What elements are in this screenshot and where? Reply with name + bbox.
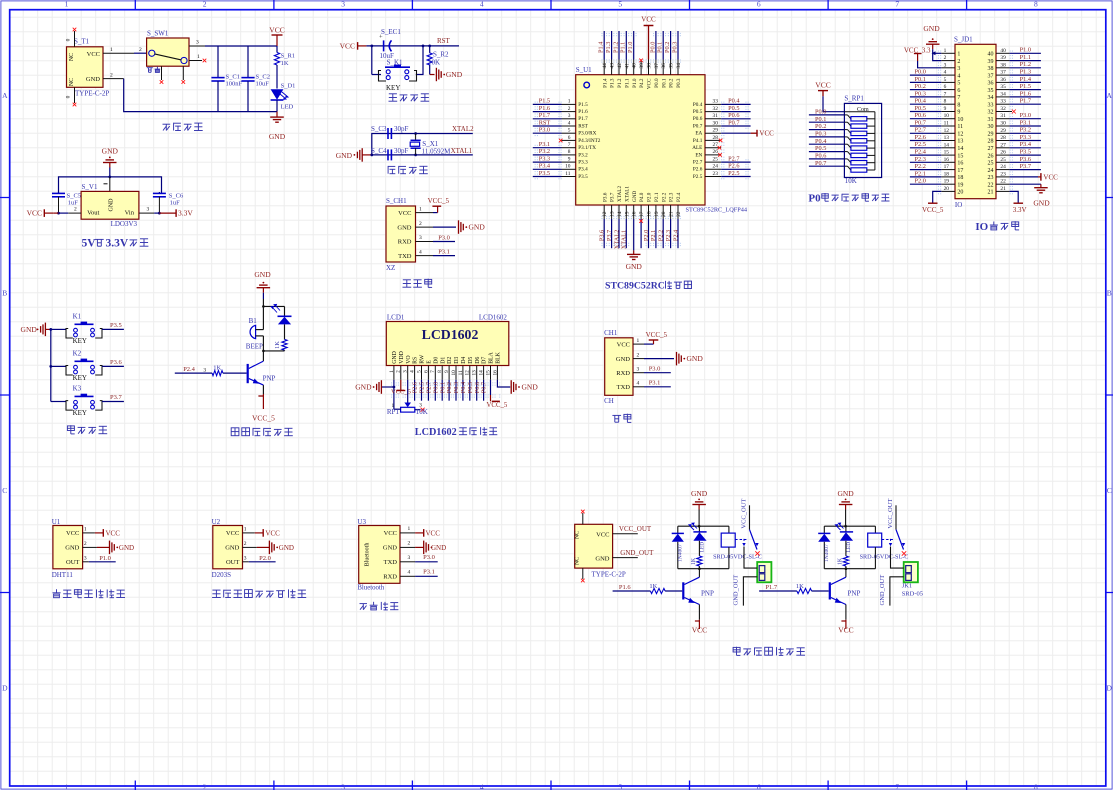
svg-text:D6: D6: [475, 357, 481, 364]
svg-text:GND: GND: [431, 544, 446, 552]
svg-text:B: B: [1107, 289, 1112, 298]
svg-text:11: 11: [565, 171, 570, 177]
wire GND down to node: [262, 293, 264, 299]
wire VCC to Com pin: [823, 96, 844, 111]
svg-text:22: 22: [676, 211, 682, 217]
svg-text:P3.7: P3.7: [610, 192, 616, 202]
CH1 pin 4 net P3.1: [416, 255, 434, 257]
svg-text:39: 39: [988, 59, 994, 65]
svg-text:P3.6: P3.6: [602, 192, 608, 202]
svg-text:27: 27: [1000, 142, 1006, 148]
svg-text:GND: GND: [336, 151, 353, 160]
svg-text:1: 1: [408, 526, 411, 532]
svg-text:1K: 1K: [649, 583, 657, 590]
relay coil SRD-05VDC-SL-C: [728, 526, 730, 533]
svg-text:35: 35: [988, 88, 994, 94]
svg-text:13: 13: [610, 211, 616, 217]
svg-text:P0.6: P0.6: [693, 116, 703, 122]
svg-text:17: 17: [944, 164, 950, 170]
svg-text:37: 37: [654, 63, 660, 69]
svg-text:25: 25: [713, 156, 719, 162]
svg-text:2: 2: [637, 352, 640, 358]
connector CH1: [605, 338, 633, 396]
svg-text:VCC: VCC: [692, 626, 707, 635]
svg-text:4: 4: [944, 70, 947, 76]
CH1 pin 1 VCC_5: [416, 212, 434, 214]
svg-text:12: 12: [957, 132, 963, 138]
svg-text:14: 14: [479, 370, 485, 376]
svg-text:VCC_5: VCC_5: [252, 414, 275, 423]
svg-text:XTAL1: XTAL1: [621, 230, 628, 249]
title 声光报警电路: [231, 428, 239, 436]
svg-text:LCD1: LCD1: [387, 313, 405, 321]
svg-text:XTAL2: XTAL2: [617, 186, 623, 202]
svg-text:P2.3: P2.3: [669, 192, 675, 202]
svg-text:3: 3: [196, 39, 199, 45]
U1 pin3 net P1.0: [83, 561, 89, 563]
CH1 pin3 net P3.0: [633, 372, 644, 374]
svg-text:P0.6: P0.6: [728, 112, 739, 119]
wire GND to top rail: [845, 510, 847, 527]
svg-text:GND: GND: [595, 556, 609, 563]
svg-text:4: 4: [408, 569, 411, 575]
svg-text:GND: GND: [254, 270, 271, 279]
svg-text:RS: RS: [413, 357, 419, 364]
svg-text:37: 37: [988, 73, 994, 79]
svg-text:GND: GND: [446, 70, 463, 79]
U3 pin1 VCC: [400, 532, 415, 534]
svg-text:22: 22: [988, 182, 994, 188]
svg-text:1: 1: [244, 527, 247, 533]
svg-text:1: 1: [419, 206, 422, 212]
svg-text:20: 20: [957, 190, 963, 196]
svg-text:1uF: 1uF: [68, 200, 79, 207]
svg-text:P0.1: P0.1: [657, 42, 664, 53]
svg-text:P3.0: P3.0: [423, 554, 435, 561]
svg-text:28: 28: [713, 135, 719, 141]
U1 left no-connect mark pin 6: [559, 139, 563, 143]
U3 pin3 net P3.0: [400, 561, 415, 563]
svg-text:1: 1: [637, 338, 640, 344]
svg-text:S_C4: S_C4: [371, 147, 387, 155]
svg-text:1K: 1K: [796, 583, 804, 590]
svg-text:P3.3: P3.3: [539, 155, 550, 162]
title 按键电路: [67, 426, 74, 431]
svg-text:P3.0: P3.0: [438, 234, 450, 241]
LDO pin 2 Vout wire: [68, 212, 81, 214]
svg-text:GND_OUT: GND_OUT: [879, 575, 886, 606]
svg-text:S_D1: S_D1: [281, 83, 296, 90]
svg-text:XTAL1: XTAL1: [451, 147, 473, 155]
svg-text:P0.3: P0.3: [676, 78, 682, 88]
svg-text:D: D: [2, 684, 8, 693]
U1 right no-connect marks pins 28 27 26: [719, 139, 723, 143]
svg-text:P0.4: P0.4: [815, 138, 827, 145]
svg-text:23: 23: [713, 171, 719, 177]
svg-text:P1.5: P1.5: [1020, 83, 1031, 90]
crystal S_X1 11.0592M: [415, 134, 417, 141]
svg-text:P0.3: P0.3: [815, 131, 826, 138]
upper wire XTAL2: [372, 134, 473, 155]
U1 right pins: [705, 103, 721, 105]
svg-text:PNP: PNP: [263, 375, 276, 383]
svg-text:P0.2: P0.2: [815, 123, 826, 130]
capacitor S_C6 1uF: [158, 192, 160, 194]
RP1 resistor element 8: [844, 165, 847, 167]
svg-text:RST: RST: [539, 119, 551, 126]
svg-text:17: 17: [639, 211, 645, 217]
U1 left pins: [562, 103, 576, 105]
svg-text:P2.1: P2.1: [650, 230, 657, 241]
svg-text:28: 28: [1000, 135, 1006, 141]
svg-text:D5: D5: [468, 357, 474, 364]
svg-text:37: 37: [1000, 70, 1006, 76]
svg-text:GND: GND: [21, 325, 38, 334]
svg-text:40: 40: [988, 52, 994, 58]
svg-text:IO: IO: [955, 201, 962, 209]
svg-text:30: 30: [1000, 121, 1006, 127]
svg-text:VCC: VCC: [340, 41, 355, 50]
svg-text:P3.7: P3.7: [110, 394, 122, 401]
svg-text:1K: 1K: [213, 364, 221, 371]
svg-text:20: 20: [944, 186, 950, 192]
svg-text:P3.2: P3.2: [1020, 127, 1031, 134]
MCU S_U1 STC89C52RC_LQFP44: [576, 75, 705, 205]
wire switch to terminal top pin: [891, 547, 904, 569]
svg-text:S_JD1: S_JD1: [954, 36, 973, 44]
diode 1N4007: [677, 526, 679, 533]
svg-text:27: 27: [988, 146, 994, 152]
svg-text:18: 18: [646, 211, 652, 217]
svg-text:1K: 1K: [691, 557, 697, 565]
svg-text:3: 3: [568, 113, 571, 119]
svg-text:24: 24: [713, 164, 719, 170]
svg-text:0: 0: [66, 95, 72, 98]
U1 bottom GND power symbol: [633, 219, 635, 250]
svg-text:1N4007: 1N4007: [824, 544, 830, 562]
svg-text:P1.3: P1.3: [605, 42, 612, 53]
CH1 pin4 net P3.1: [633, 386, 644, 388]
svg-text:27: 27: [713, 142, 719, 148]
svg-text:GND: GND: [355, 383, 372, 392]
svg-text:P3.5: P3.5: [1020, 149, 1031, 156]
svg-text:VCC: VCC: [815, 81, 830, 90]
svg-text:KEY: KEY: [73, 374, 87, 382]
wire bus to K2: [51, 365, 66, 367]
U3 pin4 net P3.1: [400, 575, 415, 577]
svg-text:4: 4: [410, 370, 416, 373]
svg-text:D2: D2: [447, 357, 453, 364]
JD1 pins: [941, 52, 955, 54]
svg-text:D203S: D203S: [212, 571, 232, 579]
LCD pin1 to GND and RP1: [393, 380, 395, 409]
LCD1602 module LCD1: [386, 322, 509, 366]
svg-text:XZ: XZ: [386, 264, 395, 272]
switch pin 1 stub: [189, 60, 202, 62]
resistor 1K relay led: [845, 541, 847, 556]
svg-text:10: 10: [957, 117, 963, 123]
svg-text:21: 21: [669, 211, 675, 217]
svg-text:K2: K2: [73, 350, 82, 358]
capacitor S_C4 30pF: [387, 149, 389, 160]
key cap bar: [385, 66, 410, 68]
svg-text:D3: D3: [454, 357, 460, 364]
svg-text:DHT11: DHT11: [52, 571, 74, 579]
svg-text:1: 1: [957, 52, 960, 58]
svg-text:P2.1: P2.1: [915, 170, 926, 177]
svg-text:VCC_5: VCC_5: [646, 331, 668, 339]
relay switch: [735, 539, 748, 541]
svg-text:VCC_OUT: VCC_OUT: [619, 525, 652, 533]
U1 pin2 GND: [83, 546, 97, 548]
svg-text:26: 26: [1000, 150, 1006, 156]
wire T1 GND pin 2 to bottom rail: [103, 78, 124, 80]
capacitor S_C3 30pF: [387, 128, 389, 139]
resistor S_R2 10K: [429, 46, 431, 53]
wire key K1 to net P3.5: [102, 328, 124, 330]
svg-text:23: 23: [988, 175, 994, 181]
svg-text:3: 3: [84, 556, 87, 562]
svg-text:P2.4: P2.4: [672, 229, 679, 241]
svg-text:9: 9: [957, 110, 960, 116]
svg-text:PNP: PNP: [701, 590, 714, 598]
svg-text:NC: NC: [69, 78, 75, 86]
svg-text:7: 7: [895, 782, 899, 790]
svg-text:7: 7: [430, 370, 436, 373]
svg-text:34: 34: [988, 95, 994, 101]
svg-text:2: 2: [110, 72, 113, 78]
svg-text:P3.4: P3.4: [578, 167, 588, 173]
top rail wire: [59, 177, 162, 194]
svg-text:VCC_OUT: VCC_OUT: [741, 499, 748, 529]
svg-text:D: D: [1106, 684, 1112, 693]
svg-text:P0: P0: [808, 192, 821, 204]
svg-text:38: 38: [988, 66, 994, 72]
relay coil SRD-05VDC-SL-C: [874, 526, 876, 533]
svg-text:KEY: KEY: [386, 84, 400, 92]
svg-text:P1.7: P1.7: [539, 112, 550, 119]
svg-text:GND: GND: [616, 356, 630, 363]
svg-text:VCC_5: VCC_5: [922, 206, 944, 214]
svg-text:P2.2: P2.2: [661, 192, 667, 202]
LED relay: [845, 526, 847, 531]
svg-text:26: 26: [713, 149, 719, 155]
U1 top pins: [603, 60, 605, 75]
svg-text:4: 4: [480, 782, 484, 790]
svg-text:P2.4: P2.4: [915, 149, 927, 156]
svg-text:P1.4: P1.4: [1020, 76, 1032, 83]
svg-text:S_R1: S_R1: [281, 53, 295, 60]
capacitor S_C1 100nF: [217, 46, 219, 78]
svg-text:P0.5: P0.5: [728, 105, 739, 112]
svg-text:Bluetooth: Bluetooth: [365, 543, 371, 567]
svg-text:P3.7: P3.7: [1020, 163, 1031, 170]
svg-text:K3: K3: [73, 385, 82, 393]
svg-text:BLK: BLK: [496, 351, 502, 363]
svg-text:GND: GND: [65, 545, 79, 552]
svg-text:29: 29: [988, 132, 994, 138]
key bus wire: [50, 329, 52, 401]
svg-text:P1.7: P1.7: [578, 116, 588, 122]
svg-text:1: 1: [944, 48, 947, 54]
svg-text:Com: Com: [857, 107, 869, 113]
svg-text:P0.4: P0.4: [915, 98, 927, 105]
svg-text:P2.0: P2.0: [643, 230, 650, 241]
svg-text:39: 39: [639, 63, 645, 69]
svg-text:8: 8: [1034, 0, 1038, 8]
svg-text:CH: CH: [604, 397, 614, 405]
base resistor 1K: [175, 372, 212, 374]
svg-text:2: 2: [84, 541, 87, 547]
svg-text:P0.4: P0.4: [728, 98, 740, 105]
svg-text:RXD: RXD: [398, 239, 412, 246]
svg-text:EA: EA: [695, 131, 702, 137]
svg-text:25: 25: [1000, 157, 1006, 163]
switch bottom stubs: [161, 66, 163, 80]
svg-text:13: 13: [472, 370, 478, 376]
svg-text:P2.6: P2.6: [728, 163, 739, 170]
svg-text:3: 3: [341, 782, 345, 790]
emitter to VCC: [845, 605, 847, 620]
GND sideways reset: [429, 65, 431, 75]
svg-text:6: 6: [957, 88, 960, 94]
svg-text:XTAL1: XTAL1: [624, 186, 630, 202]
svg-text:9: 9: [568, 156, 571, 162]
svg-text:14: 14: [957, 146, 963, 152]
svg-text:19: 19: [944, 179, 950, 185]
svg-text:P0.1: P0.1: [661, 78, 667, 88]
svg-text:GND: GND: [626, 262, 643, 271]
svg-text:S_C6: S_C6: [169, 193, 184, 200]
svg-text:2: 2: [396, 370, 402, 373]
svg-text:S_RP1: S_RP1: [844, 95, 864, 103]
top rail: [678, 525, 729, 527]
svg-text:P3.3: P3.3: [1020, 134, 1031, 141]
svg-text:33: 33: [713, 99, 719, 105]
svg-text:GND: GND: [279, 544, 294, 552]
svg-text:VCC: VCC: [426, 530, 441, 538]
svg-text:31: 31: [713, 113, 719, 119]
svg-text:P1.6: P1.6: [1020, 90, 1031, 97]
svg-text:GND: GND: [923, 24, 940, 33]
svg-text:42: 42: [617, 63, 623, 69]
wire key K3 to net P3.7: [102, 401, 124, 403]
svg-text:GND: GND: [86, 76, 100, 83]
svg-text:RST: RST: [437, 37, 451, 45]
svg-text:9: 9: [944, 106, 947, 112]
svg-text:K1: K1: [73, 313, 82, 321]
CH1 pin1 VCC_5: [633, 343, 644, 345]
svg-text:P3.4: P3.4: [1020, 141, 1032, 148]
svg-text:2: 2: [944, 55, 947, 61]
svg-text:NC: NC: [575, 557, 581, 565]
svg-text:6: 6: [757, 782, 761, 790]
GND power symbol: [276, 112, 278, 118]
svg-text:13: 13: [944, 135, 950, 141]
svg-text:A: A: [1106, 91, 1112, 100]
svg-text:19: 19: [957, 182, 963, 188]
svg-text:31: 31: [988, 117, 994, 123]
svg-text:GND: GND: [691, 489, 708, 498]
svg-text:S_C2: S_C2: [256, 74, 270, 81]
svg-text:P0.0: P0.0: [815, 109, 826, 116]
svg-text:7: 7: [957, 95, 960, 101]
svg-text:11: 11: [957, 124, 963, 130]
svg-text:RXD: RXD: [383, 574, 397, 581]
svg-text:30pF: 30pF: [394, 125, 409, 133]
svg-text:LED: LED: [700, 542, 706, 553]
transistor PNP relay: [829, 582, 831, 599]
svg-text:VCC: VCC: [269, 26, 284, 35]
svg-text:P0.2: P0.2: [669, 78, 675, 88]
svg-text:C: C: [1107, 486, 1112, 495]
bottom rail: [678, 568, 729, 570]
svg-text:Bluetooth: Bluetooth: [357, 584, 384, 591]
svg-text:16: 16: [492, 370, 498, 376]
svg-text:P3.6: P3.6: [110, 359, 122, 366]
wire GND_OUT: [613, 557, 638, 559]
svg-text:S_V1: S_V1: [82, 183, 98, 191]
svg-text:GND_OUT: GND_OUT: [620, 549, 654, 557]
svg-text:P2.4: P2.4: [183, 366, 195, 373]
svg-text:VCC: VCC: [27, 209, 42, 218]
U2 pin2 GND: [243, 546, 257, 548]
relay switch: [882, 539, 895, 541]
U3 pin2 GND: [400, 546, 415, 548]
svg-text:P0.7: P0.7: [728, 119, 739, 126]
lower wire XTAL1: [372, 154, 473, 156]
svg-text:3.3V: 3.3V: [1013, 206, 1027, 214]
svg-text:3: 3: [403, 370, 409, 373]
svg-text:S_SW1: S_SW1: [147, 29, 169, 37]
main wire to RST: [366, 45, 459, 47]
svg-text:IO: IO: [975, 221, 988, 233]
U1 top VCC power symbol pin 38: [648, 26, 650, 60]
base resistor 1K net P1.6: [613, 590, 651, 592]
svg-text:PNP: PNP: [848, 590, 861, 598]
svg-text:P3.0: P3.0: [539, 127, 550, 134]
svg-text:S_C3: S_C3: [371, 125, 387, 133]
svg-text:2: 2: [203, 0, 207, 8]
svg-text:23: 23: [1000, 171, 1006, 177]
label 开关: [147, 67, 153, 69]
svg-text:P3.1/TX: P3.1/TX: [578, 145, 596, 151]
svg-text:GND_OUT: GND_OUT: [733, 575, 740, 606]
svg-text:GND: GND: [119, 544, 134, 552]
svg-text:OUT: OUT: [66, 559, 79, 566]
svg-text:2: 2: [74, 207, 77, 213]
svg-text:P3.0: P3.0: [1020, 112, 1031, 119]
svg-text:6: 6: [423, 370, 429, 373]
svg-text:5: 5: [618, 0, 622, 8]
svg-text:100nF: 100nF: [226, 81, 243, 88]
svg-text:5: 5: [568, 128, 571, 134]
svg-text:VCC: VCC: [1043, 174, 1058, 182]
svg-text:P3.1: P3.1: [1020, 119, 1031, 126]
svg-text:TXD: TXD: [384, 559, 398, 566]
LED S_D1: [271, 89, 284, 99]
svg-text:P2.7: P2.7: [728, 155, 739, 162]
svg-text:P4.2: P4.2: [639, 78, 645, 88]
module U2 D203S: [213, 526, 243, 569]
CH1 pin 3 net P3.0: [416, 241, 434, 243]
svg-text:D7: D7: [482, 357, 488, 364]
svg-text:VCC: VCC: [384, 530, 397, 537]
U1 top no-connect mark pin 39: [639, 59, 643, 63]
svg-text:8: 8: [944, 99, 947, 105]
CH1 pin 2 GND: [416, 226, 434, 228]
pin 0 stub bottom of T1: [74, 87, 76, 103]
